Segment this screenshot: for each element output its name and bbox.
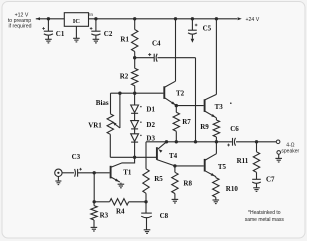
- svg-text:C8: C8: [160, 212, 169, 220]
- svg-text:VR1: VR1: [88, 121, 102, 129]
- svg-text:speaker: speaker: [281, 149, 299, 155]
- svg-text:C6: C6: [230, 125, 239, 133]
- svg-text:R5: R5: [154, 175, 163, 183]
- svg-text:C3: C3: [72, 153, 81, 161]
- svg-text:R10: R10: [226, 185, 239, 193]
- svg-text:D2: D2: [146, 121, 155, 129]
- svg-text:IC: IC: [73, 18, 81, 25]
- svg-text:C7: C7: [266, 176, 275, 184]
- svg-text:+24 V: +24 V: [246, 17, 260, 23]
- svg-text:C2: C2: [104, 30, 113, 38]
- svg-text:R3: R3: [100, 211, 109, 219]
- svg-text:T4: T4: [169, 152, 178, 160]
- svg-text:same metal mass: same metal mass: [245, 217, 285, 223]
- svg-text:4-Ω: 4-Ω: [286, 142, 294, 148]
- svg-text:if required: if required: [8, 23, 31, 29]
- svg-text:R8: R8: [183, 180, 192, 188]
- svg-text:C5: C5: [203, 24, 212, 32]
- svg-text:C1: C1: [56, 30, 65, 38]
- svg-text:T3: T3: [215, 103, 224, 111]
- svg-text:R7: R7: [182, 118, 191, 126]
- svg-text:T2: T2: [176, 89, 185, 97]
- svg-text:T5: T5: [218, 163, 227, 171]
- svg-text:R9: R9: [200, 123, 209, 131]
- svg-text:C4: C4: [152, 39, 161, 47]
- svg-text:T1: T1: [123, 168, 132, 176]
- svg-text:In: In: [89, 12, 93, 17]
- svg-text:R1: R1: [120, 35, 129, 43]
- svg-text:*Heatsinked to: *Heatsinked to: [248, 210, 281, 216]
- svg-text:R11: R11: [237, 157, 249, 165]
- svg-text:D3: D3: [146, 134, 155, 142]
- svg-text:D1: D1: [146, 105, 155, 113]
- svg-text:Bias: Bias: [96, 99, 109, 107]
- svg-text:R2: R2: [120, 72, 129, 80]
- svg-text:R4: R4: [116, 208, 125, 216]
